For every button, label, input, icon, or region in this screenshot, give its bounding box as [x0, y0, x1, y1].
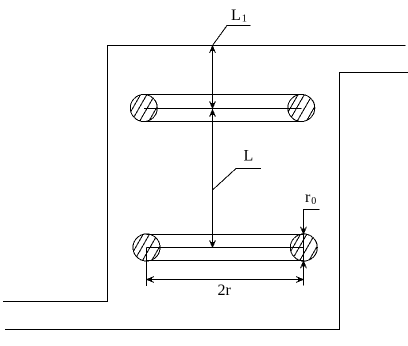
arrow down at top of right circle (r0) [301, 227, 307, 234]
dimension r0: leader bracket with arrow line [304, 210, 320, 235]
conductor 1: right end hatching [285, 89, 319, 127]
svg-text:L: L [231, 7, 241, 24]
conductor 2: right end circle [290, 234, 317, 261]
leader line for label L1 [213, 26, 251, 46]
conductor 1: axis line [144, 108, 301, 110]
conductor 2 (bottom): top tangent line [147, 234, 304, 236]
dimension L1/L: vertical dimension line [212, 46, 214, 248]
arrow right at right end of 2r line [296, 277, 303, 283]
arrow up at bottom of right circle [301, 261, 307, 268]
conductor 1: bottom tangent line [144, 121, 301, 123]
arrow down at conductor 1 axis (L1 bottom) [210, 101, 216, 108]
extension line through right circle down past 2r line [303, 234, 305, 286]
svg-text:r: r [305, 189, 311, 206]
svg-text:L: L [244, 148, 254, 165]
conductor 1 (top): top tangent line [144, 94, 301, 96]
svg-text:1: 1 [242, 14, 247, 25]
conductor 2: right end hatching [288, 229, 322, 267]
conductor 1: left end hatching [128, 89, 162, 127]
leader line for label L [213, 169, 262, 191]
conductor 2: left end circle [133, 234, 160, 261]
conductor 2: axis line [147, 247, 304, 249]
ground outline: right step [5, 73, 408, 330]
conductor 1: right end circle [288, 95, 315, 122]
arrow up at ground surface (L1 top) [210, 46, 216, 53]
ground outline: left ledge [3, 46, 406, 302]
svg-text:0: 0 [311, 196, 316, 207]
dimension line 2r [147, 279, 304, 281]
conductor 2: left end hatching [130, 229, 164, 267]
svg-text:2r: 2r [218, 282, 232, 299]
arrow up below conductor 1 axis (L top) [210, 110, 216, 117]
conductor 1: left end circle [130, 95, 157, 122]
extension line from left bottom circle centre down [146, 248, 148, 287]
arrow down at conductor 2 axis (L bottom) [210, 240, 216, 247]
arrow left at left end of 2r line [147, 277, 154, 283]
arrowheads [147, 46, 306, 282]
conductor 2: bottom tangent line [147, 260, 304, 262]
